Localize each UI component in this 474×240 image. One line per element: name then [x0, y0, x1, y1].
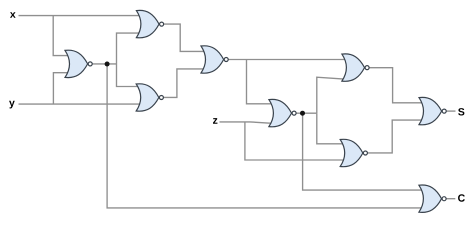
wire riser node A to U3 top — [117, 64, 141, 87]
NOR gate U6 — [342, 54, 369, 81]
wire U3 output to U4 bottom — [161, 69, 205, 98]
wire U8 output to S — [444, 110, 455, 112]
wire y branch to U1 bottom — [53, 73, 69, 104]
wire y input to U3 — [19, 103, 141, 105]
label output S — [458, 108, 464, 115]
wire node A to U9 bottom — [107, 64, 424, 208]
wire x branch to U1 top — [53, 16, 69, 56]
wire U2 output to U4 top — [162, 24, 205, 51]
NOR gate U5 — [269, 99, 296, 126]
NOR gate U1 — [65, 50, 92, 77]
wire U1 output — [90, 63, 116, 65]
NOR gate U3 — [136, 84, 163, 111]
wire riser node B to U6 bottom — [317, 77, 346, 113]
wire U6 output to U8 top — [367, 68, 424, 103]
NOR gate U7 — [340, 139, 367, 166]
label input y — [9, 101, 15, 109]
wire riser node B to U7 top — [317, 113, 345, 144]
wire node B to U9 top — [303, 113, 424, 190]
wire U5 output — [294, 112, 317, 114]
NOR gate U2 — [136, 10, 163, 37]
label output C — [458, 194, 465, 201]
label input x — [10, 12, 16, 18]
wire U4 output to U6 top — [226, 59, 346, 61]
junction node A dot — [105, 62, 110, 67]
wire z input to U5 bottom — [220, 122, 273, 123]
NOR gate U8 — [419, 97, 446, 124]
NOR gate U9 — [419, 185, 446, 212]
wire U9 output to C — [444, 198, 455, 200]
junction node B dot — [300, 111, 305, 116]
wire branch U4 to U5 top — [247, 60, 274, 104]
NOR gate U4 — [201, 46, 228, 73]
wire U7 output to U8 bottom — [365, 120, 424, 153]
wire riser node A to U2 bottom — [117, 33, 141, 64]
label input z — [213, 118, 217, 124]
wire z branch to U7 bottom — [245, 122, 345, 160]
wire x input to U2 — [19, 15, 141, 17]
